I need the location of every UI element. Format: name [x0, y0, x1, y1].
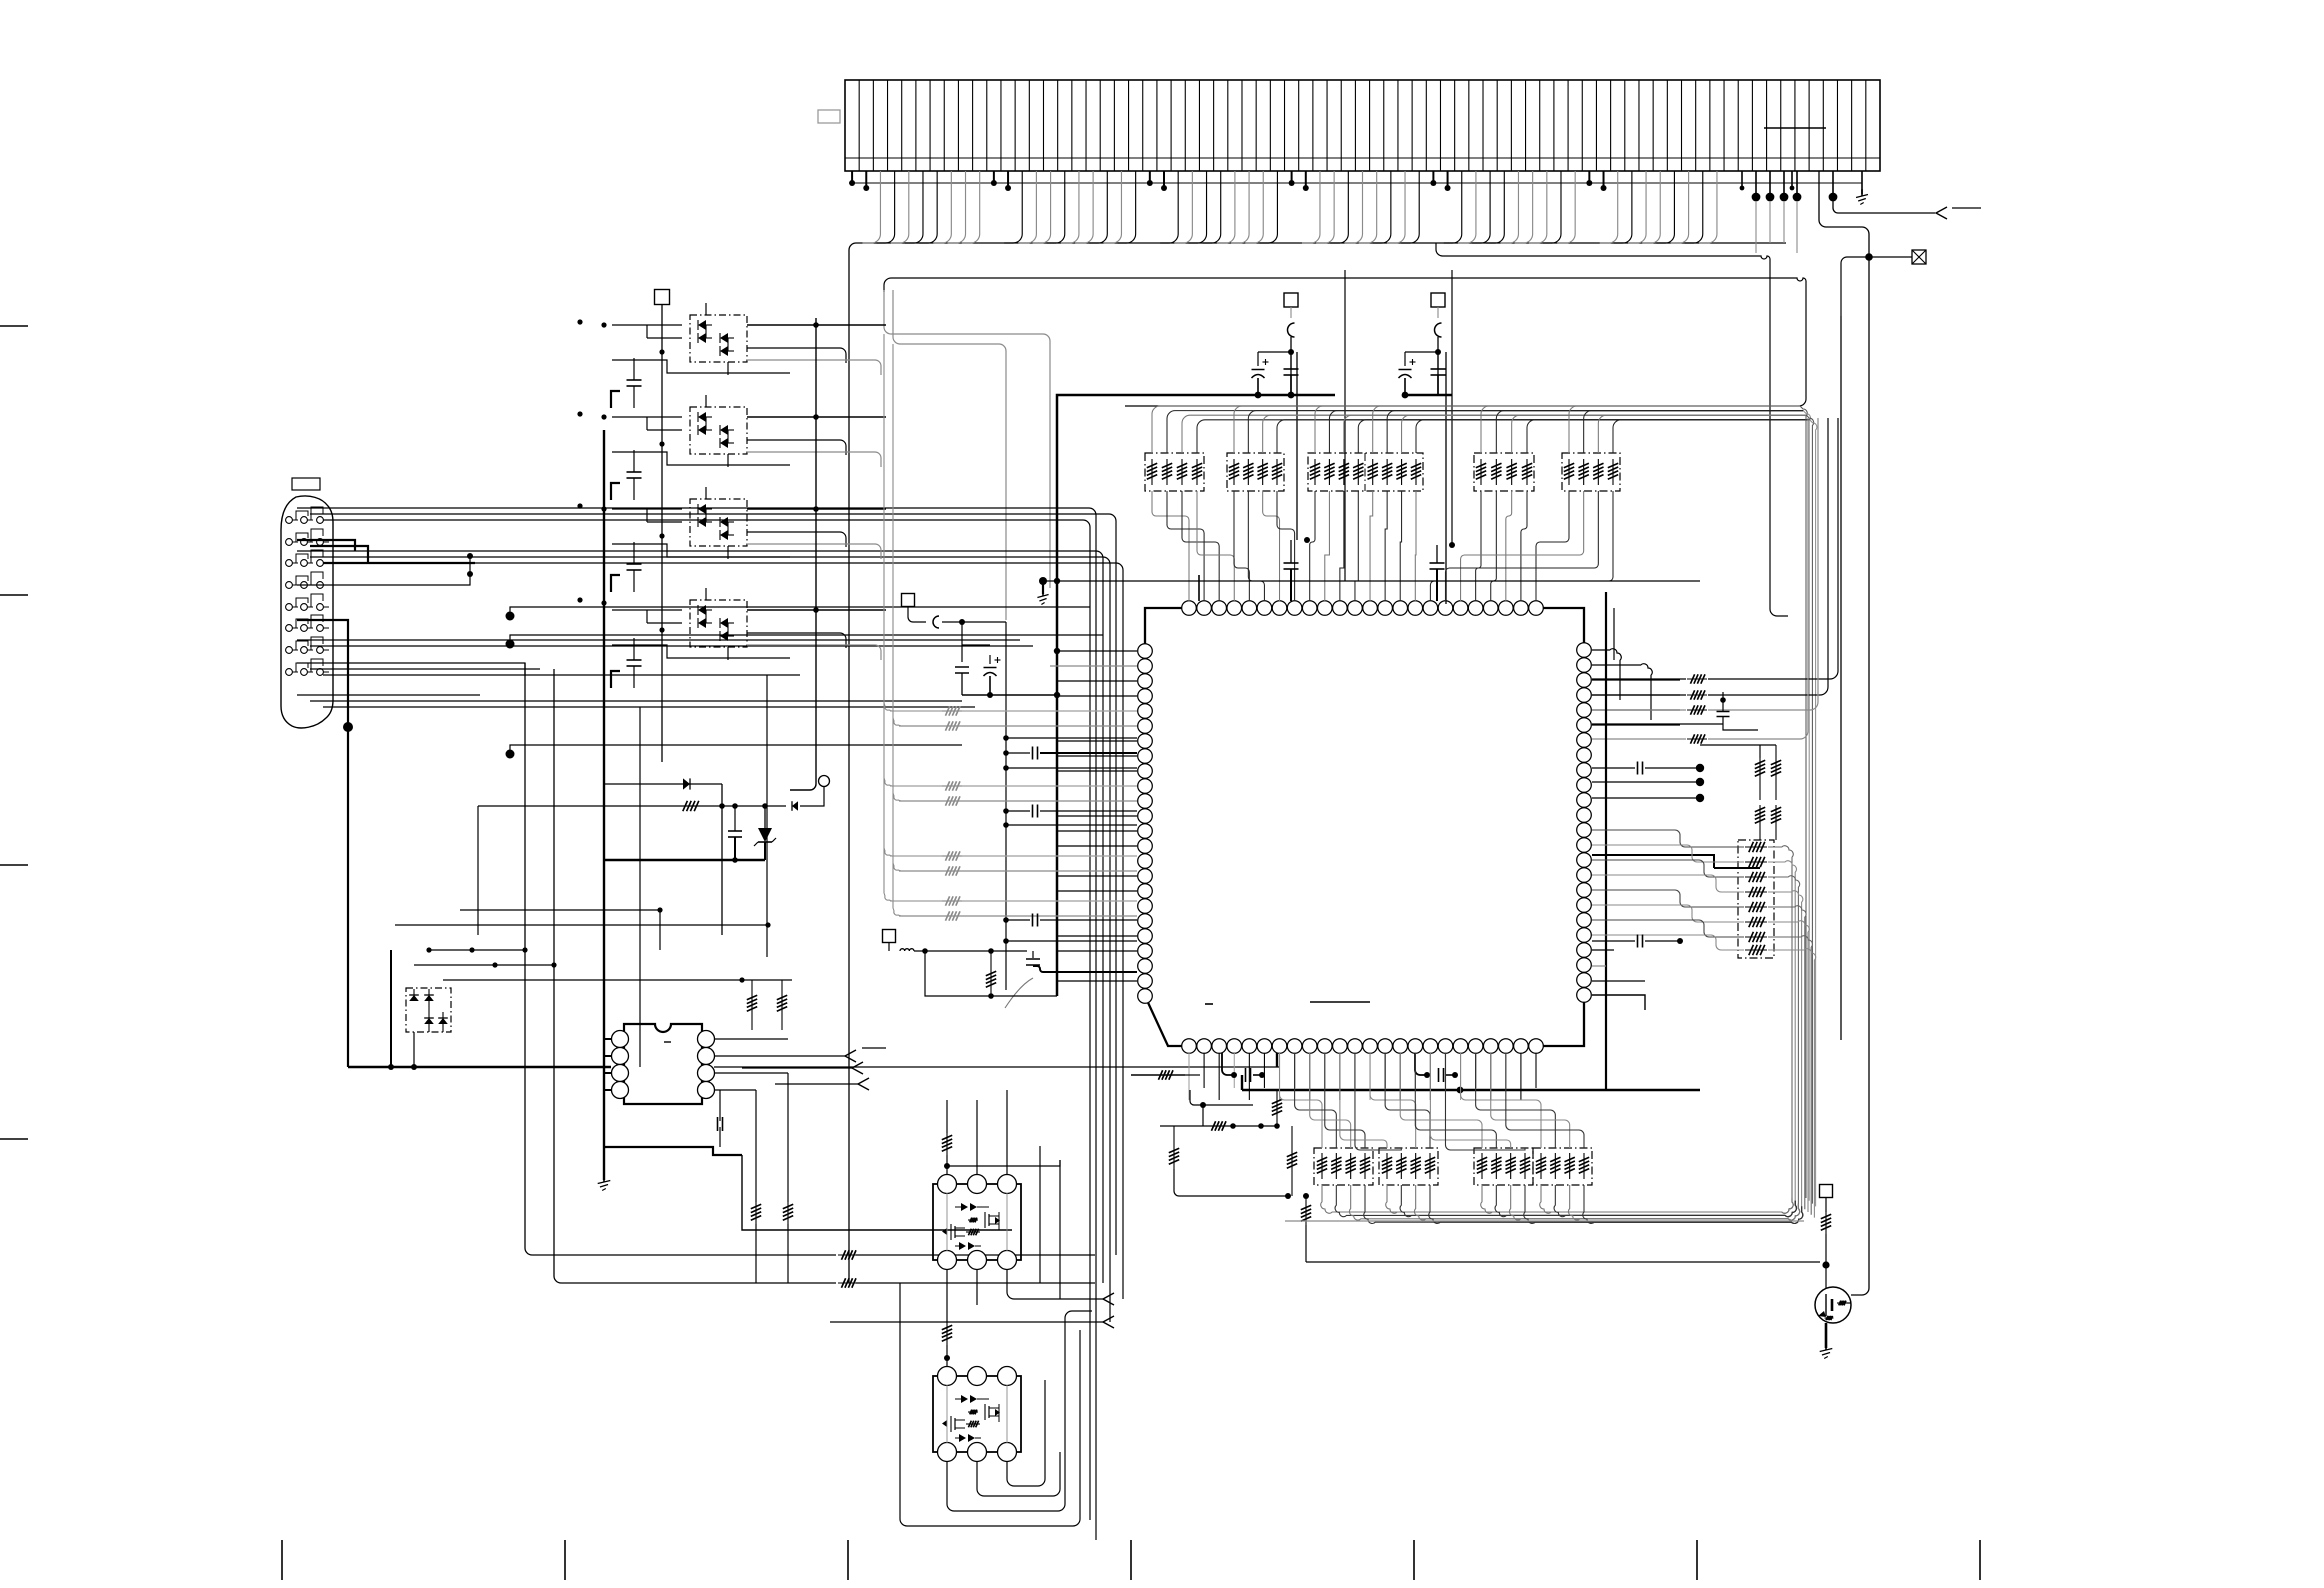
bold wire top of IC: [1043, 580, 1700, 582]
resistor row y=1126: [1160, 1125, 1277, 1127]
wire right vertical bus x=1869: [1819, 171, 1869, 1295]
wire from dot 616: [510, 607, 1090, 616]
bold rail y=860: [604, 859, 765, 861]
wires networks to IC top pins: [1152, 491, 1613, 601]
vertical collector wire x=816: [790, 318, 816, 790]
junctions on thick vertical x=1057: [1054, 648, 1060, 654]
choke L3: [1290, 307, 1292, 318]
cap C51 below IC: [1415, 1053, 1427, 1075]
IC1 pins top: [1182, 601, 1544, 616]
wire right vertical bus x=1841: [1840, 316, 1842, 1040]
crystal/cap at IC pin: [1026, 958, 1040, 960]
IC1 internal marks: [1205, 1003, 1213, 1005]
resistor network RN1: [1145, 453, 1204, 491]
cap C50 below IC: [1222, 1053, 1234, 1075]
connector CN1 (top card-edge connector): [845, 80, 1880, 171]
wire D-sub row8 bundle: [297, 694, 480, 696]
wire bus C below connector: [884, 278, 1806, 406]
Q20 emitter to ground: [1825, 1323, 1828, 1348]
wires around Q2: [612, 395, 886, 467]
resistor R63: [1291, 1149, 1293, 1173]
IC left pin stub wires: [1050, 651, 1137, 981]
wire y=965 ladder: [414, 964, 554, 966]
wire T5 to choke: [908, 607, 926, 622]
bold rail y=1090 below IC: [1241, 1075, 1243, 1090]
capacitor group C20/C21: [1258, 351, 1291, 353]
wire bus E1 (gray) to IC left region: [884, 290, 1050, 588]
bus D fan above resistor networks: [1152, 406, 1810, 453]
resistor R61: [1276, 1097, 1278, 1119]
resistor network RN6 (vertical, right of IC): [1738, 840, 1774, 958]
fan from lower networks to bus y=1221: [1321, 1185, 1803, 1223]
resistor above Q11: [946, 1323, 948, 1345]
resistor network RN7: [1314, 1148, 1373, 1185]
wire y=996 lower-left: [925, 951, 1057, 996]
wire from T3 down: [1296, 352, 1298, 540]
bold power rail y=395: [1057, 395, 1335, 996]
wires around Q3: [612, 487, 886, 559]
wires with series resistors right of IC: [1592, 678, 1686, 680]
branch caps x=1006 to pins: [1003, 750, 1009, 756]
cap C41 right of IC: [1720, 697, 1726, 703]
connector CN1 reference label box: [818, 110, 840, 123]
resistor R62: [1173, 1145, 1175, 1169]
wire D-sub row6 bundle: [297, 639, 1020, 641]
capacitor group C22/C23: [1405, 351, 1438, 353]
vertical wires x=640/767 middle: [639, 707, 641, 1067]
wires around Q1: [612, 303, 886, 375]
pull resistor pairs right of IC: [1759, 758, 1761, 780]
resistor below T6: [990, 969, 992, 991]
resistor pair right of bridge: [751, 992, 753, 1016]
resistor ladder below IC2: [755, 1202, 757, 1224]
wire from T4 down to IC region: [1445, 352, 1447, 604]
gray return bus under networks: [1285, 1220, 1804, 1222]
junction dots mid-left: [506, 612, 515, 621]
driver Q10 surrounding wires: [947, 1160, 1060, 1166]
wire terminal to packs chain: [661, 305, 663, 762]
staircase wires into RN6: [1592, 830, 1816, 1218]
bold cap rail left of IC: [962, 694, 1057, 696]
resistor network RN5: [1562, 453, 1620, 491]
vertical feed x=1345: [1344, 270, 1346, 581]
bold pin wire x=1277: [1276, 1053, 1278, 1067]
wires IC bottom pins into lower networks: [1280, 1053, 1584, 1150]
terminal T7 bottom right: [1820, 1185, 1833, 1198]
wire pin drops gray right cluster: [1755, 201, 1757, 253]
junction dots right of IC: [1696, 764, 1704, 772]
arrows bottom center: [1103, 1293, 1114, 1305]
resistor R70: [1825, 1198, 1827, 1212]
bold wire from IC2 bottom: [604, 1147, 742, 1155]
resistor network RN9: [1474, 1148, 1533, 1185]
transistor array Q10 (driver hybrid): [933, 1175, 1021, 1270]
driver loop wires right Q10: [1039, 1146, 1041, 1283]
wire diode node down: [721, 784, 723, 935]
terminal T5 left of IC: [902, 594, 915, 607]
wire arrow output right top: [1833, 199, 1935, 213]
connector ground pin stubs with dots: [849, 171, 1606, 191]
vertical gray pair x=884/893: [883, 334, 885, 893]
wire ladder above bridge: [460, 909, 660, 911]
op-amp IC2 (8-pin): [604, 1024, 715, 1104]
ground at connector right end: [1861, 171, 1863, 194]
diode D2 and terminal circle: [792, 801, 798, 811]
terminal T3 above IC: [1284, 293, 1298, 307]
cap C42 near IC right bottom: [1637, 935, 1639, 948]
connector pin wires to bus A: [862, 171, 1717, 243]
transistor pack Q4 (dual MOSFET): [690, 600, 747, 647]
diode D1: [683, 778, 690, 789]
capacitor C30 pair: [961, 622, 963, 662]
wires below IC bottom pins: [1189, 1053, 1536, 1100]
decoupling caps above IC pins: [1284, 562, 1299, 564]
transistor pack Q3 (dual MOSFET): [690, 499, 747, 546]
wire bus A below connector: [849, 243, 1786, 1283]
black branch lines x=1006: [1003, 735, 1009, 741]
junction dots on pack bus: [659, 349, 664, 354]
ground above-left of IC: [1039, 577, 1047, 585]
wire vertical x=604 bold: [603, 430, 605, 1180]
wire y=950 ladder: [429, 949, 525, 951]
transistor pack Q1 (dual MOSFET): [690, 315, 747, 362]
terminal square above Q1: [655, 290, 670, 305]
IC right pin wires top group: [1592, 649, 1680, 725]
connector CN2 (D-sub) label box: [292, 478, 320, 490]
vertical feed x=1452: [1451, 270, 1453, 545]
vertical x=1006 with branches: [1005, 622, 1007, 990]
long wire y=1262 to transistor: [1306, 1261, 1820, 1263]
wire x=478 vertical: [477, 806, 479, 935]
wire D-sub row2 bundle: [297, 551, 1103, 1283]
resistor network RN2: [1227, 453, 1284, 491]
connector CN2 pin link wires: [293, 507, 323, 672]
wire bus E2 (gray) to IC left region: [893, 290, 1006, 620]
wire from dot 644: [510, 635, 1103, 644]
connector CN2 (D-sub) shell outline: [281, 496, 333, 728]
wire from dot 754: [510, 745, 962, 754]
bus D bundle descenders right of IC: [1800, 406, 1817, 1206]
thick vertical x=1606: [1605, 592, 1607, 1090]
bridge wires: [413, 989, 415, 1001]
arrow outputs of IC2: [845, 1050, 856, 1062]
terminal T4 above IC: [1431, 293, 1445, 307]
wire horizontal y=784 with diode D1: [604, 783, 722, 785]
wire D-sub bold common: [297, 620, 348, 1067]
transistor Q20 (digital): [1815, 1287, 1851, 1323]
wire to bottom arrows: [856, 1254, 1095, 1256]
wire D-sub row1 bundle to MOSFET area: [297, 508, 1096, 1540]
wire vertical x=554: [554, 669, 836, 1283]
terminal T6 lower-left of IC: [883, 930, 896, 943]
transistor array Q11 (driver hybrid): [933, 1367, 1021, 1462]
connector right pin group with junction dots: [1740, 171, 1838, 201]
IC1 pins right: [1577, 643, 1592, 1003]
wire bold jog right of IC: [1592, 855, 1714, 868]
vertical x=1614: [1613, 608, 1615, 660]
diode bridge D4 (dashed pack): [406, 988, 451, 1032]
resistor R60 left below IC: [1131, 1074, 1185, 1076]
zener diode D3: [764, 806, 766, 828]
RN3 divider: [1364, 453, 1366, 491]
bold rail y=1067 to IC2: [348, 1066, 611, 1068]
resistor above Q10: [946, 1133, 948, 1155]
resistor network RN3: [1308, 453, 1423, 491]
capacitor C40 right of IC: [1613, 767, 1615, 769]
ground for x=604: [603, 1175, 605, 1182]
resistor network RN10: [1533, 1148, 1592, 1185]
resistor R64: [1305, 1203, 1307, 1225]
signal name underline top right: [1952, 207, 1981, 209]
connector CN2 pin contacts: [286, 517, 329, 676]
IC2 pin wires right: [714, 1038, 788, 1040]
IC right extra pin wires: [1592, 949, 1614, 951]
IC1 pins bottom: [1182, 1039, 1544, 1054]
capacitor C12 under IC2: [717, 1117, 719, 1131]
gray input lines with resistors to IC left: [884, 703, 1137, 921]
wire mesh below IC left: [1190, 1090, 1253, 1105]
microcontroller IC1 (QFP) body: [1145, 608, 1584, 1046]
wires around Q4: [612, 588, 886, 660]
wire D-sub row3 bold branch: [297, 540, 355, 551]
crossed-square terminal right: [1841, 257, 1912, 316]
resistor network RN4: [1474, 453, 1534, 491]
terminal circle: [819, 776, 830, 787]
IC1 pins left: [1138, 644, 1153, 1004]
wire bus B below connector: [1436, 243, 1788, 616]
transistor pack Q2 (dual MOSFET): [690, 407, 747, 454]
resistor network RN8: [1379, 1148, 1438, 1185]
wire D-sub row7 bundle: [297, 663, 525, 676]
ground rail y=183 below connector: [849, 182, 1862, 184]
wire vertical x=525: [525, 663, 836, 1255]
capacitor C10: [728, 830, 742, 832]
wire horizontal y=806 with resistor R10: [478, 805, 786, 807]
capacitors beside packs: [627, 379, 642, 381]
wire y=980 long: [443, 979, 792, 981]
choke L4: [1437, 307, 1439, 318]
driver Q11 surrounding wires: [977, 1452, 1060, 1496]
